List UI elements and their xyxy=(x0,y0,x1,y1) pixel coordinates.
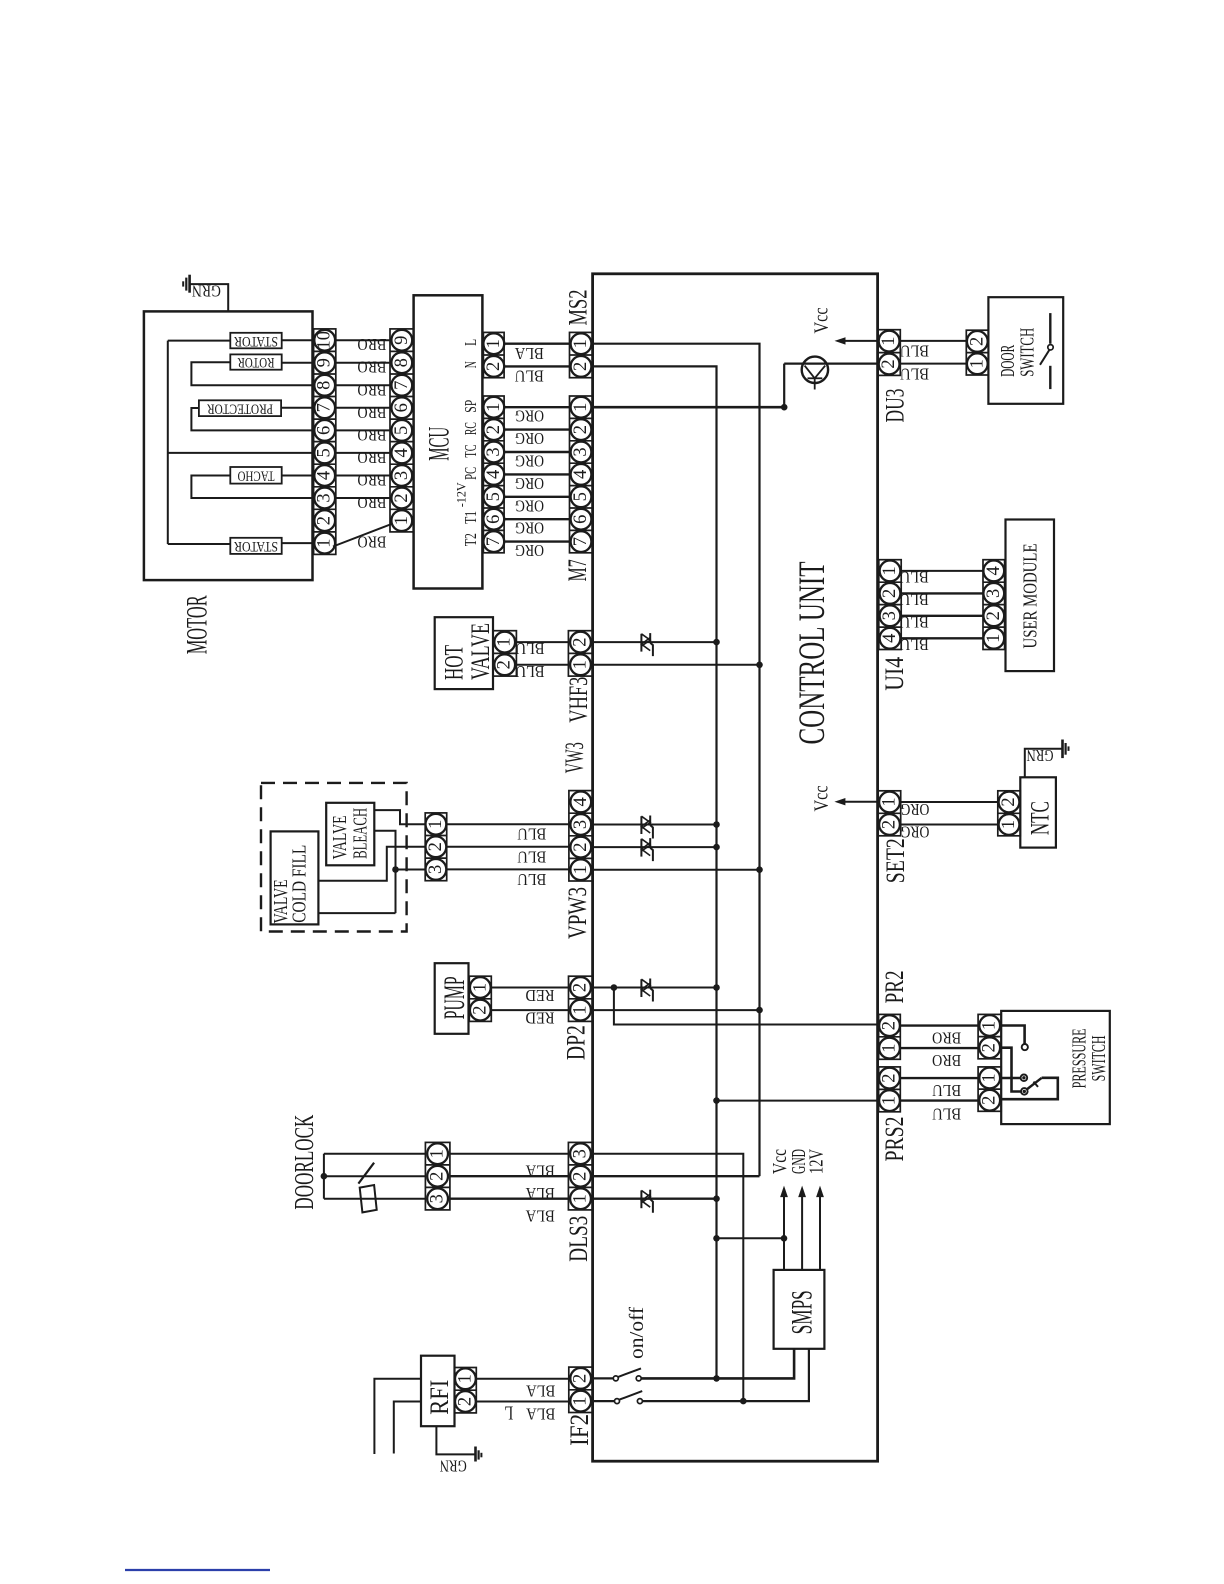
svg-text:2: 2 xyxy=(495,660,515,669)
connector NTC pins xyxy=(998,791,1021,836)
svg-text:GRN: GRN xyxy=(192,282,221,301)
svg-text:PROTECTOR: PROTECTOR xyxy=(207,400,273,416)
tacho block xyxy=(230,467,281,484)
svg-text:VALVE: VALVE xyxy=(466,623,495,680)
svg-text:2: 2 xyxy=(571,425,591,434)
connector door switch pins xyxy=(966,330,988,375)
svg-text:7: 7 xyxy=(315,403,335,412)
wire doorlock1 to DLS3-3 (BLA) xyxy=(450,1153,569,1155)
svg-text:PR2: PR2 xyxy=(880,970,909,1003)
svg-text:DOORLOCK: DOORLOCK xyxy=(289,1114,319,1209)
wire stator2 left xyxy=(168,543,231,545)
stator (bottom) block xyxy=(230,538,281,554)
svg-text:DU3: DU3 xyxy=(880,389,909,423)
triac xyxy=(640,979,642,997)
svg-text:ORG: ORG xyxy=(515,496,544,515)
wire stator1 left xyxy=(168,340,231,342)
user module block xyxy=(1006,520,1055,672)
svg-text:2: 2 xyxy=(484,425,504,434)
svg-text:7: 7 xyxy=(392,381,412,390)
svg-text:T1: T1 xyxy=(461,511,480,524)
wire DP2-2 to N bus with triac xyxy=(593,987,717,989)
connector VPW3 xyxy=(569,791,593,881)
wire DP2-1 to L bus xyxy=(593,1009,760,1011)
wire VHF3-2 to N bus with triac xyxy=(593,641,717,643)
svg-text:1: 1 xyxy=(455,1374,475,1383)
wire DLS3-3 to on/off bottom row xyxy=(593,1154,744,1402)
svg-text:6: 6 xyxy=(484,515,504,524)
svg-text:4: 4 xyxy=(571,470,591,479)
doorlock lever xyxy=(358,1163,374,1184)
svg-text:1: 1 xyxy=(392,516,412,525)
svg-text:4: 4 xyxy=(984,566,1004,575)
wire branch to PR2-2 xyxy=(614,988,879,1025)
svg-text:3: 3 xyxy=(484,447,504,456)
svg-text:on/off: on/off xyxy=(626,1307,648,1359)
svg-text:4: 4 xyxy=(571,797,591,806)
svg-text:3: 3 xyxy=(392,471,412,480)
connector M7 xyxy=(570,396,593,553)
wire MCU to M7 pin 1 (ORG) xyxy=(504,406,569,408)
wire PR2-1 to pressure switch (BRO) xyxy=(900,1047,978,1049)
pressure switch contact 2 xyxy=(1001,1077,1020,1080)
svg-text:3: 3 xyxy=(426,865,446,874)
junction M7-1 corner xyxy=(781,404,788,411)
connector SET2 xyxy=(878,791,901,836)
svg-text:2: 2 xyxy=(571,637,591,646)
wire MS2-2 to N bus xyxy=(593,366,717,1378)
svg-text:BRO: BRO xyxy=(357,425,386,444)
wire doorlock3 to DLS3-1 (BLA) xyxy=(450,1197,569,1199)
wire doorlock common vertical xyxy=(323,1154,325,1199)
svg-text:SMPS: SMPS xyxy=(787,1290,819,1334)
ground GRN (motor) xyxy=(188,275,191,293)
wire pump2 (RED) xyxy=(491,1009,568,1011)
valve assembly (dashed) xyxy=(261,783,407,932)
connector pressure switch pins lower xyxy=(978,1067,1001,1111)
connector hot valve pins xyxy=(493,631,516,676)
wire DU3-2 to door switch (BLU) xyxy=(900,363,966,365)
svg-text:10: 10 xyxy=(315,331,335,350)
wire doorlock pin3 xyxy=(324,1198,426,1200)
wire DLS3-2 to L bus end xyxy=(593,1175,760,1177)
svg-text:2: 2 xyxy=(880,820,900,829)
thermal cutout symbol xyxy=(802,357,828,383)
svg-text:2: 2 xyxy=(880,589,900,598)
svg-text:2: 2 xyxy=(984,611,1004,620)
svg-text:BLU: BLU xyxy=(932,1105,961,1124)
door switch block xyxy=(988,297,1063,404)
wire doorlock pin2 xyxy=(324,1175,426,1177)
wire MCU to M7 pin 3 (ORG) xyxy=(504,451,569,453)
triac xyxy=(640,634,642,652)
pressure switch pivot wire xyxy=(1001,1048,1021,1092)
wire mains lead 1 xyxy=(374,1379,421,1454)
svg-text:Vcc: Vcc xyxy=(811,308,833,334)
svg-text:MCU: MCU xyxy=(422,427,455,461)
svg-text:1: 1 xyxy=(980,1021,1000,1030)
wire MCU to M7 pin 6 (ORG) xyxy=(504,518,569,520)
svg-text:BLA: BLA xyxy=(525,1207,555,1226)
svg-text:ROTOR: ROTOR xyxy=(238,354,275,370)
svg-text:MS2: MS2 xyxy=(564,290,593,326)
svg-text:BLU: BLU xyxy=(516,639,545,658)
wire MS2-1 to L bus xyxy=(593,344,760,1176)
wire NTC to ground xyxy=(1025,749,1063,778)
pressure switch block xyxy=(1001,1011,1110,1124)
svg-text:L: L xyxy=(461,339,480,346)
svg-text:2: 2 xyxy=(880,1021,900,1030)
svg-text:BLU: BLU xyxy=(900,568,929,587)
svg-text:1: 1 xyxy=(984,634,1004,643)
wire MCU2 to MS2-2 (BLU) xyxy=(504,365,569,367)
Vcc arrow (SET2) xyxy=(845,801,878,803)
svg-text:BLU: BLU xyxy=(515,367,544,386)
wire motor internal bus xyxy=(167,341,169,544)
svg-text:8: 8 xyxy=(392,358,412,367)
connector RFI pins xyxy=(455,1368,477,1413)
svg-text:SWITCH: SWITCH xyxy=(1016,328,1038,377)
ground GRN (NTC) xyxy=(1061,740,1064,759)
connector PR2 xyxy=(879,1014,901,1059)
svg-text:3: 3 xyxy=(428,1194,448,1203)
pressure switch lever xyxy=(1027,1078,1041,1089)
svg-text:6: 6 xyxy=(571,515,591,524)
svg-text:1: 1 xyxy=(880,566,900,575)
wire bleach T1 to valve pin1 xyxy=(374,810,425,824)
svg-text:T2: T2 xyxy=(461,533,480,546)
svg-text:ORG: ORG xyxy=(515,541,544,560)
svg-text:12V: 12V xyxy=(806,1149,828,1174)
wire doorlock pin1 xyxy=(324,1153,426,1155)
wire valve pin3 common xyxy=(396,869,426,871)
doorlock solenoid xyxy=(360,1185,377,1212)
svg-text:1: 1 xyxy=(571,403,591,412)
wire RFI to ground xyxy=(436,1426,475,1454)
wire RFI2 to IF2-1 (BLA) xyxy=(476,1401,569,1403)
svg-text:ORG: ORG xyxy=(900,800,929,819)
svg-text:3: 3 xyxy=(984,589,1004,598)
svg-text:2: 2 xyxy=(426,842,446,851)
svg-text:BRO: BRO xyxy=(357,493,386,512)
svg-text:VHF3: VHF3 xyxy=(564,677,593,723)
svg-text:GRN: GRN xyxy=(1027,746,1054,765)
svg-text:5: 5 xyxy=(484,492,504,501)
svg-text:Vcc: Vcc xyxy=(810,786,832,812)
svg-text:ORG: ORG xyxy=(900,822,929,841)
wire MCU to M7 pin 4 (ORG) xyxy=(504,473,569,475)
wire valve3 to VPW3-1 (BLU) xyxy=(447,868,569,870)
connector doorlock pins xyxy=(425,1142,450,1210)
svg-text:2: 2 xyxy=(880,1073,900,1082)
svg-text:BLA: BLA xyxy=(525,1162,555,1181)
wire RFI1 to IF2-2 (BLA) xyxy=(476,1378,569,1380)
wire motor pin1 to MCU pin1 (diagonal) xyxy=(333,524,392,547)
svg-text:BLU: BLU xyxy=(900,590,929,609)
svg-text:1: 1 xyxy=(879,336,899,345)
svg-text:M7: M7 xyxy=(563,559,592,581)
wire doorlock2 to DLS3-2 (BLA) xyxy=(450,1175,569,1177)
svg-text:BLU: BLU xyxy=(900,613,929,632)
svg-text:HOT: HOT xyxy=(439,645,468,680)
protector block xyxy=(199,400,281,416)
wire MCU to M7 pin 2 (ORG) xyxy=(504,428,569,430)
wire stator2 to pin 1 xyxy=(282,542,314,544)
pressure switch return wire xyxy=(1001,1078,1058,1099)
svg-text:GRN: GRN xyxy=(440,1457,467,1476)
wire UI4-1 (BLU) xyxy=(901,570,983,572)
junction doorlock xyxy=(321,1173,328,1180)
svg-text:2: 2 xyxy=(470,1005,490,1014)
svg-text:4: 4 xyxy=(484,470,504,479)
svg-text:BLU: BLU xyxy=(900,365,929,384)
wire N bus to Vcc line xyxy=(717,1237,785,1239)
svg-text:BLA: BLA xyxy=(514,344,544,363)
wire DU3-1 to door switch (BLU) xyxy=(900,340,966,342)
svg-text:2: 2 xyxy=(999,797,1019,806)
junction valve common xyxy=(392,866,399,873)
wire valve2 to VPW3-2 (BLU) xyxy=(447,846,569,848)
hot valve block xyxy=(435,617,493,689)
wire on/off top to SMPS xyxy=(641,1349,794,1379)
svg-text:7: 7 xyxy=(484,537,504,546)
svg-text:1: 1 xyxy=(571,339,591,348)
svg-text:2: 2 xyxy=(967,337,987,346)
wire VPW3-2 to N bus with triac xyxy=(593,846,717,848)
svg-text:1: 1 xyxy=(495,637,515,646)
wire mains lead 2 xyxy=(394,1402,421,1454)
on/off switch bottom pole xyxy=(593,1400,615,1402)
svg-text:ORG: ORG xyxy=(515,474,544,493)
svg-text:3: 3 xyxy=(571,447,591,456)
SMPS Vcc output arrow xyxy=(783,1197,785,1270)
wire UI4-3 (BLU) xyxy=(901,615,983,617)
valve cold fill block xyxy=(271,831,319,924)
MCU block xyxy=(414,295,483,588)
svg-text:SET2: SET2 xyxy=(881,838,910,883)
svg-text:BRO: BRO xyxy=(357,403,386,422)
wire protector loop to pin 6 xyxy=(191,408,313,430)
wire rotor to pin 9 xyxy=(282,362,314,364)
wire bus to pin 5 xyxy=(168,452,314,454)
svg-text:DP2: DP2 xyxy=(562,1025,591,1060)
svg-text:IF2: IF2 xyxy=(565,1414,594,1446)
svg-text:RED: RED xyxy=(526,986,555,1005)
svg-text:DLS3: DLS3 xyxy=(564,1216,593,1262)
svg-text:2: 2 xyxy=(571,362,591,371)
svg-text:2: 2 xyxy=(571,983,591,992)
connector MCU right pins N-L xyxy=(483,332,504,377)
svg-text:RFI: RFI xyxy=(425,1380,454,1415)
RFI block xyxy=(421,1356,455,1427)
svg-text:VPW3: VPW3 xyxy=(563,887,592,939)
svg-text:STATOR: STATOR xyxy=(234,538,278,554)
connector pump pins xyxy=(469,976,491,1021)
connector VHF3 xyxy=(568,631,592,676)
svg-text:1: 1 xyxy=(880,1096,900,1105)
wire MCU to M7 pin 5 (ORG) xyxy=(504,496,569,498)
svg-text:BRO: BRO xyxy=(932,1029,961,1048)
svg-text:1: 1 xyxy=(880,1043,900,1052)
svg-text:9: 9 xyxy=(315,358,335,367)
wire M7-1 to thermal protector xyxy=(593,406,785,409)
connector PRS2 xyxy=(879,1067,901,1112)
wire PRS2-1 to pressure switch (BLU) xyxy=(900,1099,978,1101)
wire PRS2-2 to pressure switch (BLU) xyxy=(900,1077,978,1079)
svg-text:CONTROL UNIT: CONTROL UNIT xyxy=(792,562,833,745)
wire DLS3-1 to N bus with triac xyxy=(593,1197,717,1199)
svg-text:N: N xyxy=(461,361,480,368)
svg-text:TACHO: TACHO xyxy=(237,468,274,484)
svg-text:BLU: BLU xyxy=(516,662,545,681)
svg-text:ORG: ORG xyxy=(515,429,544,448)
svg-text:BLA: BLA xyxy=(526,1405,556,1424)
svg-text:PC: PC xyxy=(461,467,480,480)
triac xyxy=(640,839,642,857)
svg-text:6: 6 xyxy=(315,426,335,435)
wire protector to pin 7 xyxy=(281,407,314,409)
SMPS 12V output arrow xyxy=(819,1197,821,1270)
svg-text:2: 2 xyxy=(980,1043,1000,1052)
wire PR2-2 to pressure switch (BRO) xyxy=(900,1024,978,1026)
svg-text:MOTOR: MOTOR xyxy=(182,595,214,654)
svg-text:BRO: BRO xyxy=(357,335,386,354)
svg-text:BLU: BLU xyxy=(517,825,546,844)
valve bleach block xyxy=(326,803,374,866)
connector IF2 xyxy=(569,1367,593,1412)
svg-text:1: 1 xyxy=(999,820,1019,829)
svg-text:VW3: VW3 xyxy=(560,742,589,773)
svg-text:1: 1 xyxy=(470,983,490,992)
svg-text:BLU: BLU xyxy=(517,870,546,889)
svg-text:L: L xyxy=(504,1402,513,1424)
svg-text:BLA: BLA xyxy=(526,1381,556,1400)
svg-text:2: 2 xyxy=(455,1397,475,1406)
wire hot valve 2 (BLU) xyxy=(516,664,568,666)
svg-text:4: 4 xyxy=(315,471,335,480)
connector DLS3 xyxy=(568,1142,592,1210)
Vcc arrow (DU3) xyxy=(845,340,878,342)
svg-text:BLU: BLU xyxy=(517,847,546,866)
svg-text:RED: RED xyxy=(526,1009,555,1028)
svg-text:3: 3 xyxy=(880,611,900,620)
svg-text:5: 5 xyxy=(315,448,335,457)
wire to DU3 pin2 xyxy=(784,363,878,365)
wire valve1 to VPW3-3 (BLU) xyxy=(447,823,569,825)
svg-text:5: 5 xyxy=(392,426,412,435)
svg-text:9: 9 xyxy=(392,336,412,345)
svg-text:RC: RC xyxy=(461,422,480,435)
wire UI4-2 (BLU) xyxy=(901,592,983,594)
wire on/off bottom to SMPS xyxy=(642,1349,809,1401)
door switch contact xyxy=(1049,313,1051,344)
svg-text:2: 2 xyxy=(571,842,591,851)
wire stator1 to pin 10 xyxy=(282,339,314,341)
wire tacho loop to pin 3 xyxy=(191,476,313,499)
svg-text:BRO: BRO xyxy=(932,1051,961,1070)
connector DP2 xyxy=(569,976,593,1021)
svg-text:1: 1 xyxy=(571,865,591,874)
wire hot valve 1 (BLU) xyxy=(516,641,568,643)
svg-text:COLD FILL: COLD FILL xyxy=(288,845,310,923)
svg-text:NTC: NTC xyxy=(1025,801,1054,835)
svg-text:4: 4 xyxy=(880,634,900,643)
svg-text:1: 1 xyxy=(426,820,446,829)
svg-text:PRS2: PRS2 xyxy=(880,1117,909,1162)
svg-text:1: 1 xyxy=(880,797,900,806)
svg-text:VALVE: VALVE xyxy=(329,815,351,859)
svg-text:3: 3 xyxy=(571,820,591,829)
wire pump1 (RED) xyxy=(491,987,568,989)
svg-text:BRO: BRO xyxy=(357,448,386,467)
svg-text:2: 2 xyxy=(315,516,335,525)
SMPS block xyxy=(774,1270,825,1349)
svg-text:1: 1 xyxy=(315,538,335,547)
svg-text:BLU: BLU xyxy=(900,342,929,361)
svg-text:1: 1 xyxy=(571,1396,591,1405)
page footer mark xyxy=(125,1569,270,1571)
svg-text:BLU: BLU xyxy=(900,635,929,654)
connector MS2 xyxy=(570,332,593,377)
connector valve pins xyxy=(425,813,447,881)
connector DU3 xyxy=(878,330,900,376)
connector UI4 xyxy=(879,560,901,650)
control unit block xyxy=(593,274,878,1461)
rotor block xyxy=(230,354,281,369)
wire PRS2-1 to N bus xyxy=(717,1100,879,1102)
svg-text:BRO: BRO xyxy=(357,358,386,377)
svg-text:-12V: -12V xyxy=(453,482,468,508)
on/off switch top pole xyxy=(593,1377,614,1379)
svg-text:1: 1 xyxy=(980,1073,1000,1082)
wire MCU to M7 pin 7 (ORG) xyxy=(504,540,569,542)
wire bleach T2 / common vertical xyxy=(374,831,395,913)
wire GRN to motor xyxy=(190,284,229,311)
wire MCU1 to MS2-1 (BLA) xyxy=(504,343,569,345)
pump block xyxy=(435,963,469,1034)
svg-text:1: 1 xyxy=(484,339,504,348)
svg-text:USER MODULE: USER MODULE xyxy=(1020,544,1042,649)
motor block xyxy=(144,311,313,580)
svg-text:8: 8 xyxy=(315,381,335,390)
svg-text:TC: TC xyxy=(461,445,480,458)
wire tacho to pin 4 xyxy=(282,475,314,477)
wire SET2-2 (ORG) xyxy=(901,824,998,826)
svg-text:SP: SP xyxy=(461,400,480,413)
SMPS GND output arrow xyxy=(801,1197,803,1270)
svg-text:ORG: ORG xyxy=(515,407,544,426)
svg-text:1: 1 xyxy=(484,403,504,412)
connector user module pins xyxy=(983,560,1005,650)
wire VHF3-1 to L bus xyxy=(593,664,760,666)
svg-text:3: 3 xyxy=(571,1149,591,1158)
svg-text:2: 2 xyxy=(392,493,412,502)
svg-text:UI4: UI4 xyxy=(880,657,909,691)
wire cold fill T1 to valve pin2 xyxy=(318,847,425,881)
svg-text:PUMP: PUMP xyxy=(439,976,471,1019)
connector MCU right pins T2-SP xyxy=(483,396,504,553)
svg-text:1: 1 xyxy=(428,1149,448,1158)
svg-text:1: 1 xyxy=(571,1194,591,1203)
svg-text:1: 1 xyxy=(967,359,987,368)
connector pressure switch pins upper xyxy=(978,1014,1001,1058)
svg-text:SWITCH: SWITCH xyxy=(1088,1035,1110,1081)
svg-text:STATOR: STATOR xyxy=(234,333,278,349)
svg-text:2: 2 xyxy=(980,1096,1000,1105)
wire SET2-1 (ORG) xyxy=(901,801,998,803)
svg-text:BRO: BRO xyxy=(357,471,386,490)
NTC block xyxy=(1020,777,1056,847)
